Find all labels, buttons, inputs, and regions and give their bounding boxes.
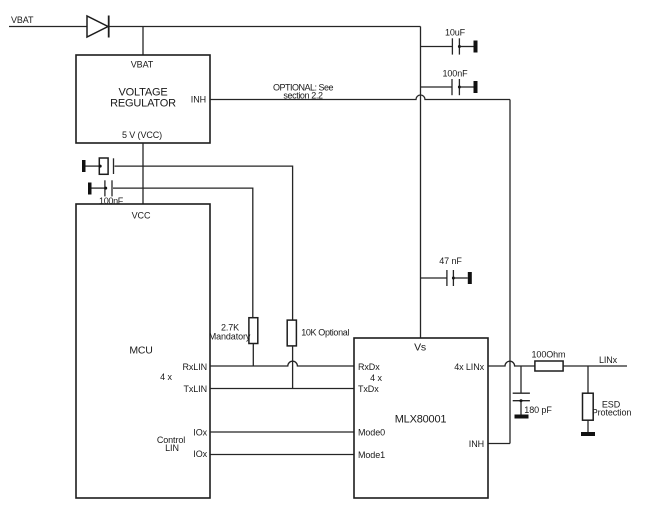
svg-text:4 x: 4 x xyxy=(370,373,382,383)
wire VBAT input xyxy=(9,26,87,28)
capacitor C3 (polarized) xyxy=(86,158,114,174)
resistor R2 10K xyxy=(287,320,296,346)
svg-text:LINx: LINx xyxy=(599,355,618,365)
wire INH to MLX80001 xyxy=(488,443,510,445)
svg-text:Protection: Protection xyxy=(592,408,632,418)
svg-text:4 x: 4 x xyxy=(160,372,172,382)
svg-text:VCC: VCC xyxy=(132,211,151,221)
label Control LIN xyxy=(157,435,185,453)
wire INH vertical xyxy=(509,100,511,444)
voltage regulator U1 xyxy=(76,55,210,143)
wire VCC regulator to MCU xyxy=(142,143,144,204)
wire RxLIN to RxDx with hop over R2 wire xyxy=(210,361,354,366)
wire TxLIN to TxDx xyxy=(210,388,354,390)
wire VCC rail to R2 (10K) xyxy=(115,166,293,320)
ground (C5) xyxy=(468,272,472,284)
svg-text:Mode0: Mode0 xyxy=(358,428,385,438)
wire INH with hop over Vs rail xyxy=(210,95,510,100)
svg-text:section 2.2: section 2.2 xyxy=(283,91,323,101)
svg-text:Mandatory: Mandatory xyxy=(209,332,251,342)
wire tap to C5 xyxy=(421,277,447,279)
wire LINx with hop over INH line xyxy=(488,361,535,366)
capacitor C5 47nF xyxy=(447,270,468,286)
ground (C4) xyxy=(88,183,92,195)
svg-text:10K Optional: 10K Optional xyxy=(301,328,349,338)
ground (C2) xyxy=(474,81,478,93)
svg-text:TxDx: TxDx xyxy=(358,384,379,394)
wire IOx to Mode1 xyxy=(210,454,354,456)
wire diode to Vs rail xyxy=(109,26,421,28)
wire IOx to Mode0 xyxy=(210,431,354,433)
MCU U2 xyxy=(76,204,210,498)
wire Z1 to ground xyxy=(587,420,589,432)
wire tap to C1 xyxy=(421,46,453,48)
svg-text:IOx: IOx xyxy=(193,449,207,459)
wire R2 to TxLIN (crosses RxLIN) xyxy=(292,346,294,389)
ESD protection Z1 xyxy=(583,393,594,420)
value label 2.7K Mandatory xyxy=(209,323,251,342)
svg-text:MCU: MCU xyxy=(129,345,152,357)
svg-text:4x LINx: 4x LINx xyxy=(454,362,484,372)
wire R1 to RxLIN xyxy=(252,344,254,367)
label VOLTAGE REGULATOR xyxy=(110,87,176,110)
capacitor C1 10uF xyxy=(452,38,473,54)
svg-text:INH: INH xyxy=(469,439,484,449)
svg-text:Vs: Vs xyxy=(414,342,426,354)
svg-text:IOx: IOx xyxy=(193,428,207,438)
svg-text:REGULATOR: REGULATOR xyxy=(110,98,176,110)
svg-text:180 pF: 180 pF xyxy=(524,405,552,415)
wire Vs rail xyxy=(420,27,422,339)
svg-text:47 nF: 47 nF xyxy=(439,256,462,266)
capacitor C6 180pF xyxy=(513,393,530,414)
label OPTIONAL See section 2.2 xyxy=(273,83,334,101)
svg-text:100Ohm: 100Ohm xyxy=(532,350,566,360)
svg-text:5 V (VCC): 5 V (VCC) xyxy=(122,130,162,140)
capacitor C4 100nF xyxy=(92,180,113,196)
wire tap to C2 xyxy=(421,86,453,88)
label ESD Protection xyxy=(592,400,632,418)
svg-text:Mode1: Mode1 xyxy=(358,450,385,460)
ground (C1) xyxy=(474,41,478,53)
MLX80001 U3 xyxy=(354,338,488,498)
ground (Z1) xyxy=(581,432,595,436)
svg-text:TxLIN: TxLIN xyxy=(183,384,207,394)
svg-text:RxDx: RxDx xyxy=(358,362,380,372)
svg-text:INH: INH xyxy=(191,95,206,105)
svg-text:VBAT: VBAT xyxy=(11,15,34,25)
svg-text:RxLIN: RxLIN xyxy=(182,362,207,372)
wire VCC rail to R1 (2.7K) xyxy=(113,188,253,318)
resistor R3 100Ohm xyxy=(535,361,563,371)
wire VBAT to regulator xyxy=(142,27,144,56)
svg-text:VBAT: VBAT xyxy=(131,60,154,70)
wire tap to ESD xyxy=(587,366,589,393)
wire LINx output xyxy=(563,365,627,367)
ground (C6) xyxy=(515,415,529,419)
resistor R1 2.7K xyxy=(249,318,258,344)
svg-text:10uF: 10uF xyxy=(445,28,466,38)
svg-text:LIN: LIN xyxy=(165,443,179,453)
diode D1 xyxy=(87,16,109,38)
svg-text:MLX80001: MLX80001 xyxy=(395,414,447,426)
capacitor C2 100nF xyxy=(452,79,474,95)
svg-text:100nF: 100nF xyxy=(442,69,468,79)
wire tap to C6 xyxy=(520,366,522,393)
ground (C3) xyxy=(82,160,86,172)
